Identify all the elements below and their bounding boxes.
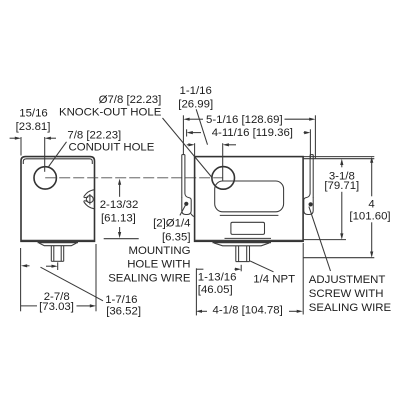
svg-text:ADJUSTMENT: ADJUSTMENT [309, 274, 386, 286]
note adjustment screw with sealing wire [309, 274, 392, 314]
side view enclosure body [21, 157, 95, 242]
svg-text:5-1/16 [128.69]: 5-1/16 [128.69] [206, 114, 283, 126]
svg-text:[79.71]: [79.71] [324, 180, 359, 192]
dimension 2-13/32 [61.13] [100, 179, 139, 239]
svg-text:4-1/8 [104.78]: 4-1/8 [104.78] [213, 305, 283, 317]
svg-text:15/16: 15/16 [19, 108, 48, 120]
dimension 4-11/16 [119.36] [187, 127, 311, 159]
svg-text:1/4 NPT: 1/4 NPT [253, 273, 295, 285]
dimension 5-1/16 [128.69] [183, 114, 315, 159]
nameplate [231, 222, 265, 234]
svg-text:1-7/16: 1-7/16 [105, 294, 137, 306]
knock-out hole label &#216;7/8 [22.23] [59, 94, 212, 178]
line under nameplate [225, 237, 272, 239]
dimension 1-13/16 [46.05] [196, 265, 241, 316]
svg-text:[101.60]: [101.60] [349, 211, 390, 223]
dimension 2-7/8 [73.03] [21, 244, 96, 313]
centerline between conduit and knock-out holes [45, 177, 223, 179]
conduit hole label 7/8 [22.23] [49, 130, 155, 167]
dimension 4-1/8 [104.78] [196, 243, 303, 317]
knock-out hole circle [212, 167, 235, 190]
dimension 15/16 [23.81] [10, 108, 56, 172]
cover plate lower edge line [220, 214, 279, 216]
note [2]&#216;1/4 [6.35] mounting hole with sealing wire [108, 217, 191, 284]
front view NPT nipple [236, 246, 250, 262]
conduit hole circle [34, 167, 56, 189]
svg-text:[73.03]: [73.03] [39, 301, 74, 313]
svg-text:[23.81]: [23.81] [16, 121, 51, 133]
label 1/4 NPT [250, 261, 295, 286]
svg-text:1-1/16: 1-1/16 [180, 85, 212, 97]
front view left mounting ear [182, 155, 195, 217]
dimension 1-7/16 [36.52] [21, 262, 141, 317]
side view pressure fitting flange [38, 242, 78, 246]
svg-text:[36.52]: [36.52] [106, 305, 141, 317]
svg-text:[46.05]: [46.05] [198, 284, 233, 296]
svg-text:[26.99]: [26.99] [178, 98, 213, 110]
svg-text:[61.13]: [61.13] [101, 212, 136, 224]
front view enclosure body [195, 157, 304, 242]
svg-text:4-11/16 [119.36]: 4-11/16 [119.36] [212, 127, 293, 139]
svg-text:HOLE WITH: HOLE WITH [127, 259, 190, 271]
side view cover lip line [23, 159, 92, 164]
dimension 3-1/8 [79.71] [303, 157, 374, 240]
svg-text:7/8 [22.23]: 7/8 [22.23] [67, 130, 121, 142]
side view mounting ear profile [84, 190, 95, 209]
svg-text:1-13/16: 1-13/16 [198, 272, 237, 284]
svg-text:SEALING WIRE: SEALING WIRE [108, 273, 191, 285]
svg-text:KNOCK-OUT HOLE: KNOCK-OUT HOLE [59, 107, 162, 119]
front view right mounting ear [304, 155, 313, 215]
svg-text:SEALING WIRE: SEALING WIRE [309, 302, 392, 314]
svg-text:4: 4 [368, 199, 374, 211]
leader from left mounting hole to [2]&#216;1/4 note [180, 206, 185, 216]
terminal cover plate [215, 181, 284, 212]
front view right mounting hole [309, 202, 313, 206]
dimension 1-1/16 [26.99] [178, 85, 236, 181]
side view NPT nipple [51, 246, 63, 262]
svg-text:Ø7/8 [22.23]: Ø7/8 [22.23] [99, 94, 162, 106]
leader from right mounting hole to adjustment screw note [309, 207, 331, 271]
front view pressure fitting flange [213, 242, 272, 246]
svg-text:[6.35]: [6.35] [162, 231, 191, 243]
svg-text:[2]Ø1/4: [2]Ø1/4 [153, 217, 190, 229]
front view left mounting hole [184, 202, 188, 206]
dimension 4 [101.60] [304, 157, 391, 258]
svg-text:MOUNTING: MOUNTING [128, 245, 190, 257]
svg-text:SCREW WITH: SCREW WITH [309, 288, 384, 300]
svg-text:CONDUIT HOLE: CONDUIT HOLE [69, 142, 155, 154]
svg-text:2-13/32: 2-13/32 [100, 199, 139, 211]
